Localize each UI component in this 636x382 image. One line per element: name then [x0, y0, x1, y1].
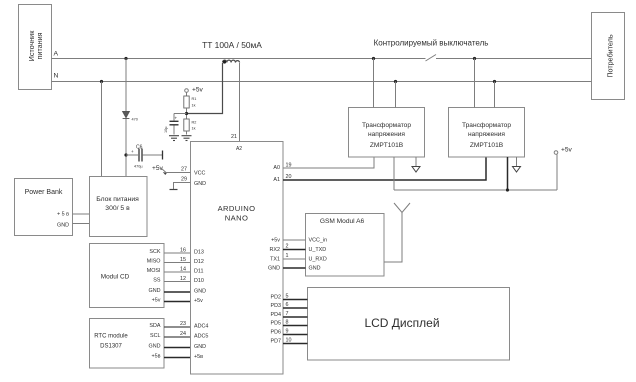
svg-text:24: 24	[180, 331, 186, 337]
ground (arduino GND pin)	[170, 189, 178, 191]
junction T2 VCC on rail	[506, 188, 509, 191]
PSU box Блок питания	[90, 177, 148, 237]
svg-text:1k: 1k	[192, 127, 196, 131]
svg-text:PD5: PD5	[271, 321, 282, 327]
svg-text:+5v: +5v	[561, 147, 573, 154]
wire power bank GND to PSU	[73, 223, 90, 225]
svg-text:8: 8	[286, 320, 289, 326]
power flag +5v (VCC pin)	[152, 165, 167, 175]
svg-text:+ 5 в: + 5 в	[57, 212, 69, 218]
svg-text:+5в: +5в	[194, 354, 203, 360]
wire node to C6	[126, 154, 138, 156]
wire T2 VCC to +5v rail	[507, 157, 509, 190]
svg-text:5: 5	[286, 294, 289, 300]
svg-text:PD6: PD6	[271, 330, 282, 336]
svg-text:12: 12	[180, 276, 186, 282]
wire line A to T1	[373, 59, 375, 108]
wire line N to PSU	[101, 82, 103, 177]
ground (T2)	[513, 167, 521, 173]
svg-text:LCD Дисплей: LCD Дисплей	[364, 316, 439, 330]
wire line N to T2	[494, 82, 496, 108]
svg-text:D10: D10	[194, 278, 204, 284]
wire line A to T2	[474, 59, 476, 108]
node divider junction	[185, 112, 188, 115]
svg-text:9: 9	[286, 329, 289, 335]
power source box Источник питания	[19, 5, 52, 90]
svg-text:SCL: SCL	[150, 333, 161, 339]
wire MISO to D12	[164, 262, 191, 264]
wire SS to D10	[164, 281, 191, 283]
svg-text:GND: GND	[57, 223, 69, 229]
terminal bar	[162, 151, 164, 160]
svg-text:470µ: 470µ	[134, 165, 143, 169]
junction on line N to PSU	[100, 80, 103, 83]
wire SDA to ADC4	[164, 326, 191, 328]
power bank box	[15, 179, 73, 236]
+5v supply rail	[394, 189, 557, 191]
svg-text:19: 19	[286, 163, 292, 169]
wire line A right segment	[436, 58, 592, 60]
transformer box T2 ZMPT101B	[449, 108, 525, 158]
wire line A left segment	[52, 58, 426, 60]
wire PD4 to LCD pin 7	[283, 316, 308, 318]
svg-text:27: 27	[181, 167, 187, 173]
svg-text:GND: GND	[268, 266, 280, 272]
svg-text:1k: 1k	[192, 104, 196, 108]
svg-text:ТТ 100А / 50мА: ТТ 100А / 50мА	[202, 40, 262, 50]
svg-text:Потребитель: Потребитель	[606, 34, 615, 78]
svg-text:2: 2	[286, 244, 289, 250]
svg-text:GND: GND	[194, 289, 206, 295]
svg-text:SDA: SDA	[149, 323, 160, 329]
arduino left pin labels	[194, 171, 208, 361]
svg-text:470: 470	[132, 118, 138, 122]
wire A0 to transformer 1 output pin 19	[283, 157, 374, 168]
svg-text:+5v: +5v	[152, 298, 161, 304]
svg-text:А2: А2	[236, 146, 242, 152]
wire GND pin 29	[174, 183, 191, 190]
wire PD6 to LCD pin 9	[283, 334, 308, 336]
svg-text:Источникпитания: Источникпитания	[27, 30, 44, 62]
current transformer TT coil	[223, 60, 240, 62]
svg-text:А: А	[54, 51, 59, 58]
wire line N	[52, 81, 592, 83]
wire R2 to ground	[186, 131, 188, 135]
wire PD7 to LCD pin 10	[283, 343, 308, 345]
wire PD3 to LCD pin 6	[283, 307, 308, 309]
wire T1 VCC to +5v rail	[393, 157, 395, 190]
svg-text:29: 29	[181, 177, 187, 183]
svg-text:GSM Modul A6: GSM Modul A6	[320, 218, 365, 225]
svg-text:15: 15	[180, 257, 186, 263]
svg-text:10: 10	[286, 338, 292, 344]
svg-text:14: 14	[180, 267, 186, 273]
svg-text:23: 23	[180, 321, 186, 327]
svg-text:R2: R2	[192, 121, 197, 125]
wire line A to PSU	[125, 59, 127, 177]
wire +5в (RTC)	[164, 357, 191, 359]
svg-text:N: N	[54, 73, 59, 80]
junction on line N to transformer 2	[493, 80, 496, 83]
wire GND (RTC)	[164, 347, 191, 349]
svg-text:ADC4: ADC4	[194, 324, 208, 330]
svg-text:D12: D12	[194, 259, 204, 265]
power flag +5v (divider top)	[185, 87, 204, 94]
svg-text:1: 1	[286, 253, 289, 259]
wire R1 to node	[186, 108, 188, 119]
svg-text:R1: R1	[192, 97, 197, 101]
SD card module box Modul CD	[90, 244, 165, 308]
svg-text:GND: GND	[309, 266, 321, 272]
RTC module box DS1307	[90, 319, 165, 369]
antenna ANT1	[384, 203, 410, 262]
resistor R2	[184, 119, 197, 131]
resistor R1	[184, 96, 197, 108]
svg-text:Modul CD: Modul CD	[101, 274, 130, 281]
svg-text:GND: GND	[149, 288, 161, 294]
wire TT secondary left	[187, 63, 223, 114]
svg-text:+: +	[175, 116, 178, 121]
svg-text:RX2: RX2	[270, 247, 281, 253]
junction dot on TT coil	[223, 60, 226, 63]
svg-text:U_TXD: U_TXD	[309, 247, 327, 253]
wire +5v (Modul CD)	[164, 301, 191, 303]
svg-text:VCC_in: VCC_in	[309, 238, 328, 244]
svg-text:D11: D11	[194, 269, 204, 275]
consumer box Потребитель	[592, 13, 625, 100]
wire C6 to terminal	[143, 154, 163, 156]
svg-text:GND: GND	[149, 344, 161, 350]
svg-text:10µ: 10µ	[164, 126, 168, 133]
arduino U1 box	[191, 142, 284, 375]
wire TT secondary right to arduino pin 21	[239, 63, 241, 142]
svg-text:PD2: PD2	[271, 295, 282, 301]
wire +5v to R1	[186, 92, 188, 96]
junction on line A to transformer 2	[473, 57, 476, 60]
transformer box T1 ZMPT101B	[349, 108, 425, 158]
wire TX1 to U_RXD pin 1	[283, 258, 306, 260]
capacitor C2 polarized	[164, 114, 179, 135]
svg-text:PD3: PD3	[271, 303, 282, 309]
GSM module box A6	[306, 214, 385, 277]
wire SCL to ADC5	[164, 336, 191, 338]
svg-text:6: 6	[286, 302, 289, 308]
svg-text:SCK: SCK	[149, 249, 160, 255]
wire node to capacitor	[174, 113, 187, 115]
svg-text:21: 21	[231, 134, 237, 140]
svg-text:U_RXD: U_RXD	[309, 257, 327, 263]
svg-text:D13: D13	[194, 250, 204, 256]
wire line N to T1	[395, 82, 397, 108]
capacitor C6 node on A feed	[124, 153, 127, 156]
wire T2 GND	[516, 157, 518, 167]
svg-text:GND: GND	[194, 344, 206, 350]
wire rail to +5v flag	[556, 155, 558, 191]
svg-text:Power Bank: Power Bank	[25, 189, 63, 196]
wire SCK to D13	[164, 252, 191, 254]
svg-text:PD4: PD4	[271, 312, 282, 318]
svg-text:Контролируемый выключатель: Контролируемый выключатель	[374, 39, 489, 48]
svg-text:GND: GND	[194, 181, 206, 187]
wire T1 GND	[415, 157, 417, 167]
wire GND to GSM GND	[283, 267, 306, 269]
wire GND (Modul CD)	[164, 291, 191, 293]
ground (T1)	[412, 167, 420, 173]
svg-text:ADC5: ADC5	[194, 334, 208, 340]
ground (capacitor)	[169, 136, 179, 141]
wire RX2 to U_TXD pin 2	[283, 249, 306, 251]
svg-text:16: 16	[180, 248, 186, 254]
wire PD5 to LCD pin 8	[283, 325, 308, 327]
svg-text:A1: A1	[273, 177, 280, 183]
svg-text:SS: SS	[153, 278, 161, 284]
arduino right pin labels	[268, 165, 281, 345]
svg-text:MISO: MISO	[147, 259, 161, 265]
junction on line N to transformer 1	[394, 80, 397, 83]
svg-text:+: +	[131, 149, 134, 154]
svg-text:20: 20	[286, 174, 292, 180]
wire arduino +5v to VCC_in	[283, 239, 306, 241]
svg-text:+5v: +5v	[192, 87, 204, 94]
power flag +5v (rail)	[554, 147, 572, 155]
junction on line A to PSU	[124, 57, 127, 60]
svg-text:TX1: TX1	[270, 257, 280, 263]
LCD display box	[308, 288, 510, 361]
switch контролируемый выключатель blade	[426, 55, 437, 62]
capacitor C6	[131, 145, 143, 169]
svg-text:PD7: PD7	[271, 339, 282, 345]
wire A1 to transformer 2 output pin 20	[283, 157, 486, 180]
wire +5v to VCC pin 27	[166, 172, 191, 174]
svg-text:+5v: +5v	[271, 238, 280, 244]
varistor on A feed	[123, 112, 138, 122]
junction on line A to transformer 1	[372, 57, 375, 60]
ground (R2)	[182, 136, 192, 141]
svg-text:A0: A0	[273, 165, 280, 171]
svg-text:MOSI: MOSI	[147, 268, 161, 274]
svg-text:+5v: +5v	[194, 298, 203, 304]
svg-text:7: 7	[286, 311, 289, 317]
wire PD2 to LCD pin 5	[283, 299, 308, 301]
svg-text:VCC: VCC	[194, 171, 205, 177]
svg-text:+5в: +5в	[151, 354, 160, 360]
wire power bank +5v to PSU	[73, 213, 90, 215]
wire MOSI to D11	[164, 271, 191, 273]
